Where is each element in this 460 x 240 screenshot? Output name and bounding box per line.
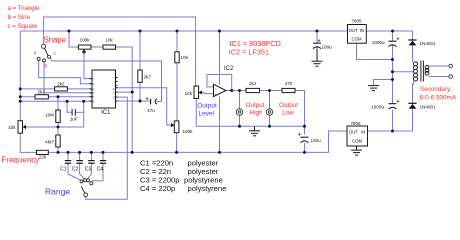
svg-text:+: + xyxy=(298,132,301,138)
svg-text:1000u: 1000u xyxy=(371,105,384,110)
resistor R8 2k7 square pull-up xyxy=(138,70,142,82)
svg-text:1N4001: 1N4001 xyxy=(420,41,437,46)
switch SW1 Shape selector xyxy=(37,44,50,62)
svg-text:1N4001: 1N4001 xyxy=(420,105,437,110)
wire transformer centre tap xyxy=(393,71,414,73)
wire lower 2k2 right lead to IC1 pin xyxy=(48,96,91,98)
svg-text:C3: C3 xyxy=(85,166,92,172)
svg-text:Low: Low xyxy=(282,110,294,117)
IC1 left pin numbers xyxy=(92,77,94,103)
wire jack low top xyxy=(269,91,271,109)
label Output Level xyxy=(197,102,217,117)
wire op-amp V+ from +5 rail xyxy=(219,31,221,84)
wire C1 drop xyxy=(67,152,69,160)
node square pull-up junction xyxy=(138,99,141,102)
jack J1 Output High xyxy=(236,109,242,115)
wire 100k duty pot riser from +5 rail xyxy=(69,31,78,47)
potentiometer VR1 100k duty (horizontal) xyxy=(78,45,91,54)
svg-text:100u: 100u xyxy=(322,45,333,50)
wire jack low bottom xyxy=(269,115,271,126)
capacitor C8 100u +5 rail electrolytic xyxy=(313,38,321,48)
wire switch b to IC1 pin xyxy=(44,62,92,93)
wire pot to 10k top resistor xyxy=(91,46,103,48)
wire 10k vertical resistor top from +5 rail xyxy=(176,31,178,52)
svg-text:22k: 22k xyxy=(39,155,47,160)
wire FM/bias line from left rail to IC1 pin xyxy=(20,100,91,102)
transformer T1 xyxy=(414,61,453,82)
svg-text:High: High xyxy=(250,110,263,117)
node output ground bus junctions xyxy=(238,125,241,128)
SECTION: components xyxy=(18,25,453,197)
svg-text:2k7: 2k7 xyxy=(144,74,152,79)
node +5 rail junctions xyxy=(68,30,71,33)
ground symbol +5 decoupling xyxy=(312,49,323,66)
svg-text:2k2: 2k2 xyxy=(57,82,65,87)
wire Frequency pot wiper riser xyxy=(26,101,84,127)
wire 1uF right leg xyxy=(76,111,84,113)
diode D1 1N4001 positive xyxy=(408,40,416,45)
wire jack high top xyxy=(239,91,241,109)
wire 10k top resistor to sine-shape column xyxy=(116,47,133,152)
resistor R11 470 output xyxy=(282,88,295,92)
label legend a=Triangle b=Sine c=Square xyxy=(8,5,40,30)
wire C2 drop xyxy=(79,152,81,160)
svg-text:+: + xyxy=(397,99,400,105)
svg-text:Output: Output xyxy=(279,102,298,109)
svg-text:+: + xyxy=(397,36,400,42)
svg-text:7805: 7805 xyxy=(351,19,362,24)
resistor R3 2k2 upper duty xyxy=(55,87,68,91)
svg-text:C4 = 220p: C4 = 220p xyxy=(140,184,175,193)
node frequency wiper junction xyxy=(57,126,60,129)
SECTION: text labels xyxy=(2,5,457,196)
wire jack high bottom xyxy=(239,115,241,126)
wire sine-adjust pot bottom to -5 rail xyxy=(176,133,178,153)
svg-text:10k: 10k xyxy=(105,38,113,43)
resistor R9 10k vertical xyxy=(175,52,179,63)
IC1 8038 body xyxy=(90,70,118,108)
resistor R4 2k2 lower duty xyxy=(35,95,48,99)
svg-text:10k: 10k xyxy=(181,55,189,60)
node sine shape column junction xyxy=(131,91,134,94)
wire 100u +5 decoupling riser xyxy=(316,31,318,43)
regulator U3 7805 xyxy=(348,25,367,44)
wire 1uF left leg xyxy=(67,101,72,112)
SECTION: rails and main wires xyxy=(20,17,449,199)
transformer primary terminal bottom xyxy=(449,75,453,79)
svg-text:b: b xyxy=(45,63,48,69)
transformer core xyxy=(420,61,422,82)
resistor R2 10k (top horizontal) xyxy=(103,45,116,49)
ground symbol output bus xyxy=(249,126,260,136)
svg-text:100k: 100k xyxy=(80,38,91,43)
node left rail duty junctions xyxy=(19,87,22,90)
potentiometer VR4 10k Output Level xyxy=(194,86,202,99)
svg-text:Shape: Shape xyxy=(44,35,67,44)
op-amp U2 IC2 triangle xyxy=(214,84,227,96)
svg-text:11: 11 xyxy=(113,91,116,95)
wire IC1 pin to sine-shape column junction xyxy=(116,91,133,93)
wire left rail from +5 rail down to Frequency pot xyxy=(19,31,21,121)
svg-text:COM: COM xyxy=(352,37,362,42)
resistor R5 10M xyxy=(56,110,60,123)
label Secondary 6-0-6 500mA xyxy=(420,86,457,102)
svg-text:10k: 10k xyxy=(185,91,193,96)
capacitor C6 47u electrolytic (horizontal) xyxy=(146,97,157,105)
capacitor C3 2200p xyxy=(88,161,94,164)
svg-text:2k2: 2k2 xyxy=(249,81,257,86)
capacitor C10 1000u negative reservoir xyxy=(389,99,400,109)
wire diode D1 to transformer secondary top xyxy=(412,45,414,62)
transformer primary terminal top xyxy=(449,64,453,68)
ground symbol 7905 COM xyxy=(351,146,362,155)
resistor R10 2k2 output xyxy=(246,88,260,92)
wire diode D2 to 7905 IN xyxy=(368,109,413,131)
potentiometer VR2 10k Frequency xyxy=(18,121,26,134)
wire op-amp output line xyxy=(226,90,246,92)
diode D2 1N4001 negative xyxy=(408,103,416,109)
svg-text:a = Triangle: a = Triangle xyxy=(8,5,40,12)
svg-text:Level: Level xyxy=(199,111,215,118)
node -5 rail junctions xyxy=(57,151,60,154)
wire IC1 square pin to 47u cap xyxy=(116,100,150,102)
wire duty pot wiper down to IC1 pin xyxy=(84,52,92,79)
wire 7805 COM to ground column xyxy=(357,43,393,59)
svg-text:polystyrene: polystyrene xyxy=(188,184,227,193)
capacitor C7 100u output rail electrolytic xyxy=(298,132,309,143)
wire 2k2 to 470 link xyxy=(260,90,283,92)
wire switch a to IC1 pin xyxy=(39,61,92,84)
wire 10k vertical to sine-adjust pot top xyxy=(176,63,178,121)
wire op-amp feedback loop xyxy=(207,75,232,91)
wire +5V top rail xyxy=(20,30,347,32)
wire node square-wave: switch c to coupling cap riser xyxy=(50,58,162,102)
wire upper 2k2 left lead xyxy=(20,88,54,90)
svg-text:Frequency: Frequency xyxy=(2,156,40,165)
node timing junction 10M top xyxy=(57,95,60,98)
wire -5V bottom rail xyxy=(20,133,36,152)
svg-text:470: 470 xyxy=(285,81,293,86)
wire transformer primary top lead xyxy=(429,65,449,67)
node psu ground column junctions xyxy=(391,58,394,61)
capacitor C5 1uF (non-polar horizontal) xyxy=(72,109,75,116)
wire timing resistor column 10M/4M7 xyxy=(57,97,59,110)
wire output ground bus xyxy=(196,99,304,127)
svg-text:2k2: 2k2 xyxy=(37,90,45,95)
capacitor C9 1000u positive reservoir xyxy=(389,36,400,46)
wire upper 2k2 right lead to IC1 pin xyxy=(67,88,91,90)
svg-text:10M: 10M xyxy=(45,113,54,118)
svg-text:100k: 100k xyxy=(183,129,194,134)
wire lower 2k2 left lead xyxy=(20,96,35,98)
wire IC1 pin to range switch column xyxy=(86,97,128,199)
wire 2k7 pull-up column xyxy=(139,31,141,70)
label capacitor table xyxy=(140,159,226,194)
wire shape-switch common to Output Level pot (top signal line) xyxy=(44,17,196,86)
svg-text:C4: C4 xyxy=(97,166,104,172)
IC1 left pin stubs xyxy=(90,79,92,101)
potentiometer VR3 100k sine adjust xyxy=(171,121,179,133)
svg-text:Range: Range xyxy=(45,186,70,196)
SECTION: junction dots xyxy=(19,30,394,154)
capacitor C4 220p xyxy=(100,161,106,164)
svg-text:4M7: 4M7 xyxy=(45,140,54,145)
wire 47u cap to square riser xyxy=(157,101,162,103)
wire C4 drop xyxy=(102,152,104,160)
svg-text:1000u: 1000u xyxy=(372,40,385,45)
svg-text:C2: C2 xyxy=(72,166,79,172)
svg-text:+: + xyxy=(146,97,149,103)
svg-text:Output: Output xyxy=(246,102,265,109)
svg-text:IC2: IC2 xyxy=(224,66,234,72)
svg-text:IC2 = LF351: IC2 = LF351 xyxy=(229,48,269,57)
transformer primary winding xyxy=(425,65,429,75)
svg-text:+: + xyxy=(318,38,321,44)
wire 1000u/ground power column xyxy=(392,31,394,41)
IC1 right pin stubs xyxy=(116,78,118,102)
svg-text:7905: 7905 xyxy=(350,121,361,126)
node op-amp output junctions xyxy=(230,89,233,92)
svg-text:Output: Output xyxy=(197,102,217,109)
svg-text:Secondary:: Secondary: xyxy=(420,86,452,93)
svg-text:IN: IN xyxy=(360,28,364,33)
wire 7805 OUT-IN pass line right to diode D1 xyxy=(366,31,412,40)
svg-text:OUT: OUT xyxy=(349,129,358,134)
svg-text:c = Square: c = Square xyxy=(8,23,38,30)
switch SW2 Range rotary xyxy=(80,179,93,197)
svg-text:IN: IN xyxy=(361,129,365,134)
regulator U4 7905 xyxy=(347,126,368,146)
capacitor C2 22n xyxy=(76,161,82,164)
svg-text:a: a xyxy=(34,51,37,57)
wire Output Level pot wiper to op-amp + input xyxy=(199,93,214,94)
wire transformer primary bottom lead xyxy=(429,76,449,78)
node FM line junctions xyxy=(19,100,22,103)
resistor R6 4M7 xyxy=(56,135,60,147)
wire op-amp V- to -5 rail xyxy=(219,97,221,153)
svg-text:10k: 10k xyxy=(8,125,16,130)
jack J2 Output Low xyxy=(266,109,272,115)
wire C3 drop xyxy=(90,152,92,160)
transformer secondary winding xyxy=(414,62,418,81)
svg-text:IC1: IC1 xyxy=(101,110,111,116)
label Output High xyxy=(246,102,265,117)
wire 100u output cap to -5 rail xyxy=(304,143,306,152)
svg-text:100u: 100u xyxy=(311,138,322,143)
svg-text:6-0-6 500mA: 6-0-6 500mA xyxy=(420,95,457,102)
svg-text:47u: 47u xyxy=(147,108,155,113)
svg-text:OUT: OUT xyxy=(349,28,358,33)
wire 470 to ground corner xyxy=(295,91,305,135)
svg-text:1uF: 1uF xyxy=(70,116,78,121)
capacitor C1 220n xyxy=(65,161,71,164)
ground symbol psu centre xyxy=(368,86,379,91)
label Output Low xyxy=(279,102,298,117)
IC1 right pin numbers xyxy=(113,76,117,103)
resistor R7 22k (bottom rail inline) xyxy=(37,150,49,154)
wire transformer secondary bottom to diode D2 xyxy=(412,81,415,103)
svg-text:COM: COM xyxy=(352,138,362,143)
wire ground symbol branch xyxy=(374,80,393,86)
wire IC1 pin to sine-adjust pot wiper xyxy=(116,88,172,125)
svg-text:b = Sine: b = Sine xyxy=(8,14,31,21)
svg-text:C1: C1 xyxy=(60,166,67,172)
